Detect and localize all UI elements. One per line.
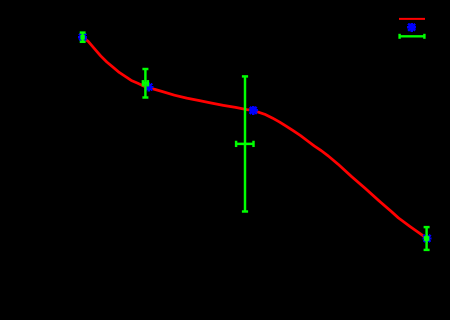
blue asterisk marker M2 (144, 82, 153, 91)
legend: blue asterisk marker sample (407, 23, 416, 32)
blue asterisk marker M1 (78, 33, 87, 42)
green xy error bar E2 (142, 69, 148, 98)
legend: red curve sample line (399, 18, 425, 20)
green xy error bar E4 (424, 227, 430, 250)
legend: green error bar sample (400, 34, 425, 39)
fitted red curve through data points (83, 37, 427, 238)
green xy error bar E1 (80, 33, 86, 42)
blue asterisk marker M4 (422, 234, 431, 243)
blue asterisk marker M3 (249, 106, 258, 115)
green xy error bar E3 (236, 76, 253, 211)
